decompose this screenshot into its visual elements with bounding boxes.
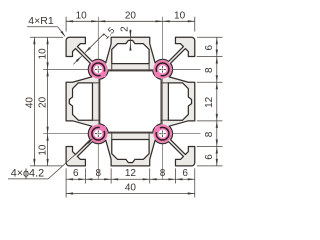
- svg-text:6: 6: [182, 168, 188, 179]
- centerlines through screw holes: [43, 17, 201, 180]
- svg-text:20: 20: [125, 11, 137, 22]
- svg-text:10: 10: [76, 11, 88, 22]
- pink highlight rings on screw holes: [92, 63, 170, 141]
- svg-text:20: 20: [37, 96, 48, 108]
- bottom dim 40: [66, 183, 195, 195]
- svg-text:12: 12: [125, 168, 137, 179]
- dim 2 face thickness: [120, 26, 132, 51]
- svg-text:2: 2: [120, 26, 131, 32]
- svg-text:12: 12: [204, 96, 215, 108]
- svg-text:8: 8: [160, 168, 166, 179]
- profile body (40x40 extrusion cross-section with 8 T-slot cavities, 4 trapezoid cavities, central cavity): [66, 37, 195, 166]
- top dimension chain 10 20 10: [66, 11, 195, 32]
- svg-text:6: 6: [204, 44, 215, 50]
- svg-text:4×R1: 4×R1: [28, 15, 54, 27]
- svg-text:8: 8: [204, 131, 215, 137]
- svg-text:10: 10: [37, 48, 48, 60]
- bottom dimension chain 6 8 12 8 6: [66, 168, 195, 197]
- svg-text:10: 10: [174, 11, 186, 22]
- label 4xR1 with leader to corner: [27, 15, 66, 37]
- svg-text:4×ϕ4.2: 4×ϕ4.2: [11, 168, 44, 180]
- svg-text:40: 40: [125, 183, 137, 194]
- center cross marks in holes: [95, 66, 166, 137]
- svg-text:8: 8: [95, 168, 101, 179]
- right dimension chain 6 8 12 8 6: [197, 37, 223, 166]
- svg-text:6: 6: [204, 154, 215, 160]
- screw holes 4x dia4.2: [92, 63, 169, 140]
- left dimension chain 10 20 10: [37, 37, 48, 166]
- svg-text:6: 6: [73, 168, 79, 179]
- left dim 40: [24, 37, 63, 166]
- svg-text:8: 8: [204, 67, 215, 73]
- svg-text:40: 40: [24, 97, 35, 109]
- wall end stubs near screw bosses: [92, 64, 168, 140]
- label 4x dia4.2 with leader to hole: [8, 138, 93, 179]
- dim 1.5 web thickness: [73, 25, 116, 64]
- svg-text:10: 10: [37, 144, 48, 156]
